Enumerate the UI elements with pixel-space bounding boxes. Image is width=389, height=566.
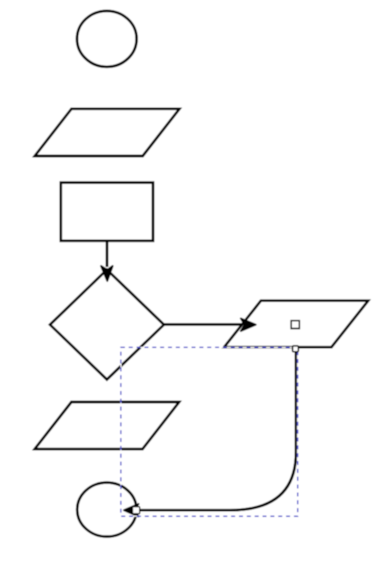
diamond (decision) <box>50 270 164 380</box>
handle H1: small square at center of P3 <box>291 321 299 329</box>
arrowhead A2 (right, into P3) <box>241 318 256 331</box>
wire edge E1: rectangle to diamond <box>106 241 109 267</box>
rectangle (process) <box>61 183 153 241</box>
wire edge E3: curved connector P3 bottom to end ellipse <box>128 347 296 510</box>
selection dashed box white underlay (marching-ants gaps) <box>121 347 298 516</box>
parallelogram P1 (data) <box>35 109 180 156</box>
handle H3: edge target endpoint on end ellipse <box>132 507 139 514</box>
wire edge E2: diamond to parallelogram P3 <box>163 323 243 326</box>
arrowhead A3 (left, into end ellipse) <box>124 504 139 517</box>
arrowhead A1 (down, into diamond) <box>101 266 113 281</box>
parallelogram P3 right (data) <box>224 301 368 348</box>
end ellipse (terminator) <box>77 483 136 537</box>
selection dashed box (blue dashes) <box>121 347 298 516</box>
handle H2: edge source endpoint on P3 bottom edge <box>293 346 299 352</box>
parallelogram P2 lower-left (data) <box>35 402 180 449</box>
start ellipse (terminator) <box>77 11 137 67</box>
